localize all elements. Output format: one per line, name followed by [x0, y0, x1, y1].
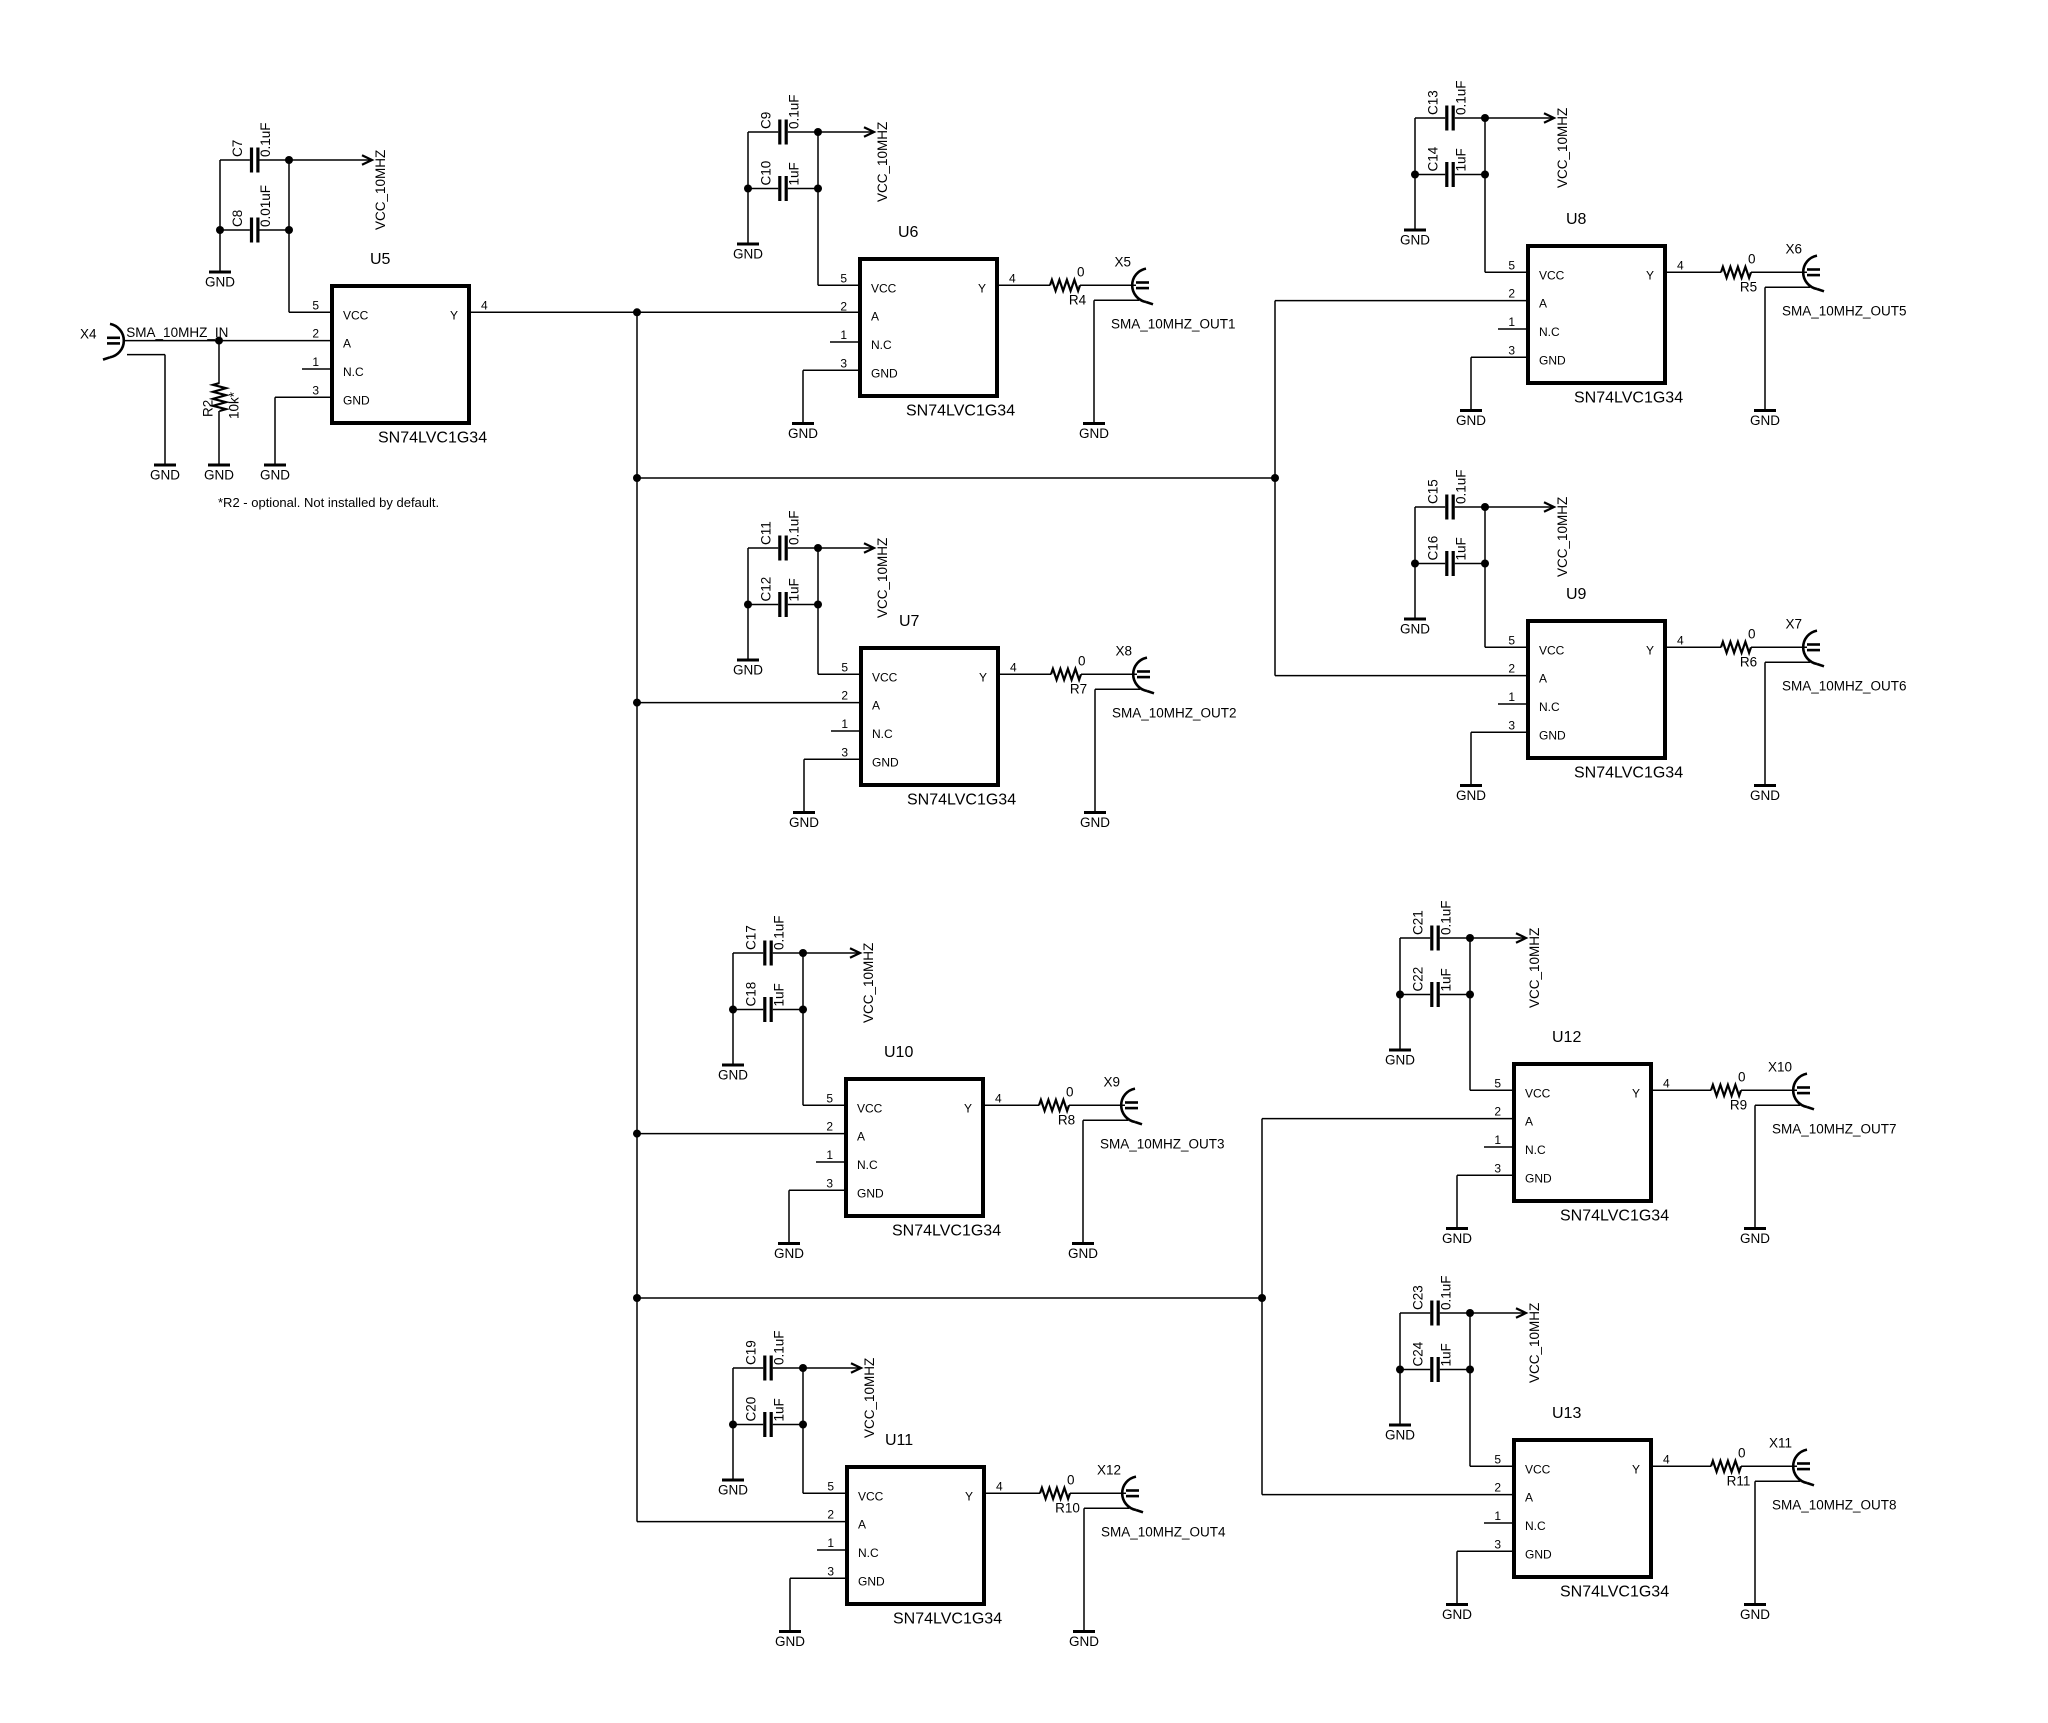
junction C8 right [285, 226, 293, 234]
svg-text:Y: Y [964, 1101, 972, 1115]
svg-text:SMA_10MHZ_OUT7: SMA_10MHZ_OUT7 [1772, 1121, 1897, 1136]
wire cap right vertical upper [817, 132, 819, 189]
wire cap left vertical [1414, 507, 1416, 564]
svg-text:C22: C22 [1411, 967, 1426, 992]
capacitor C24 1uF [1411, 1341, 1454, 1382]
svg-text:R7: R7 [1070, 681, 1087, 696]
wire caps to U5 VCC [288, 230, 290, 312]
wire C16 left lead [1415, 563, 1445, 565]
svg-text:C17: C17 [744, 925, 759, 950]
junction caps right bottom [799, 1421, 807, 1429]
capacitor C7 0.1uF [230, 122, 273, 172]
wire U13 GND pin 3 [1457, 1550, 1512, 1552]
ground below C14 [1400, 230, 1430, 248]
power arrow VCC_10MHZ [1485, 108, 1570, 188]
SMA connector X10 [1793, 1074, 1814, 1110]
power arrow VCC_10MHZ [1485, 497, 1570, 577]
wire U9 pin3 to ground [1470, 732, 1472, 785]
svg-text:GND: GND [343, 393, 370, 407]
svg-text:C9: C9 [759, 112, 774, 129]
SMA connector X7 [1803, 631, 1824, 667]
svg-text:SN74LVC1G34: SN74LVC1G34 [1574, 765, 1683, 782]
wire X7 shield to ground [1764, 662, 1766, 785]
svg-text:GND: GND [872, 755, 899, 769]
resistor R2 10k optional [213, 383, 226, 411]
wire X4 to U5 A pin 2 [123, 340, 330, 342]
svg-text:N.C: N.C [1539, 325, 1560, 339]
svg-text:1uF: 1uF [1439, 968, 1454, 991]
svg-text:1: 1 [840, 328, 847, 342]
svg-text:GND: GND [733, 663, 763, 678]
junction caps right bottom [1466, 991, 1474, 999]
svg-text:A: A [857, 1130, 865, 1144]
svg-text:0.1uF: 0.1uF [787, 94, 802, 129]
ground below C12 [733, 660, 763, 678]
wire C7 left lead [220, 159, 250, 161]
wire U11 GND pin 3 [790, 1577, 845, 1579]
IC U12 SN74LVC1G34 buffer [1514, 1064, 1651, 1201]
svg-text:R10: R10 [1055, 1500, 1080, 1515]
svg-text:U12: U12 [1552, 1029, 1581, 1046]
svg-text:VCC_10MHZ: VCC_10MHZ [875, 122, 890, 202]
ground X9 shield [1068, 1244, 1098, 1262]
svg-text:GND: GND [718, 1068, 748, 1083]
wire C15 left lead [1415, 506, 1445, 508]
wire cap right vertical upper [802, 1368, 804, 1425]
IC U5 SN74LVC1G34 buffer [332, 286, 469, 423]
svg-text:SMA_10MHZ_OUT2: SMA_10MHZ_OUT2 [1112, 705, 1237, 720]
wire cap right vertical upper [817, 548, 819, 605]
wire U13 Y to R11 [1681, 1465, 1711, 1467]
svg-text:N.C: N.C [871, 338, 892, 352]
svg-text:A: A [872, 699, 880, 713]
svg-text:U5: U5 [370, 251, 391, 268]
junction caps left [1411, 171, 1419, 179]
ground below C24 [1385, 1425, 1415, 1443]
svg-text:GND: GND [1400, 233, 1430, 248]
svg-text:SN74LVC1G34: SN74LVC1G34 [907, 792, 1016, 809]
power arrow VCC_10MHZ [818, 122, 890, 202]
junction caps left [729, 1421, 737, 1429]
wire R2 top lead [218, 341, 220, 383]
U12 pin 5 VCC stub [1484, 1089, 1512, 1091]
svg-text:3: 3 [1508, 343, 1515, 357]
svg-text:N.C: N.C [1539, 700, 1560, 714]
svg-text:0: 0 [1066, 1084, 1074, 1099]
svg-text:GND: GND [1442, 1231, 1472, 1246]
svg-text:4: 4 [1677, 258, 1684, 272]
SMA connector X12 [1122, 1477, 1143, 1513]
svg-text:2: 2 [1508, 662, 1515, 676]
svg-text:0: 0 [1077, 264, 1085, 279]
svg-text:1uF: 1uF [772, 983, 787, 1006]
wire cap left vertical [1414, 118, 1416, 175]
svg-text:U11: U11 [885, 1432, 913, 1449]
wire U9 GND pin 3 [1471, 731, 1526, 733]
wire C14 left lead [1415, 174, 1445, 176]
wire U5 Y output to U6 A [471, 311, 858, 313]
U5 pin 5 VCC stub [302, 311, 330, 313]
svg-text:U8: U8 [1566, 211, 1587, 228]
junction C7 right [285, 156, 293, 164]
svg-text:Y: Y [979, 670, 987, 684]
svg-text:1: 1 [1508, 690, 1515, 704]
svg-text:Y: Y [978, 281, 986, 295]
U6 pin 4 Y stub [999, 284, 1027, 286]
power arrow VCC_10MHZ U5 [289, 150, 388, 230]
wire to U5 VCC pin 5 [289, 311, 330, 313]
svg-text:4: 4 [996, 1479, 1003, 1493]
resistor R6 0 ohm [1721, 642, 1751, 653]
wire C21 left lead [1400, 937, 1430, 939]
wire C12 left lead [748, 604, 778, 606]
wire X4 shield to ground [164, 355, 166, 465]
junction caps right top [1481, 503, 1489, 511]
wire bus to U13 A pin [1262, 1494, 1512, 1496]
svg-text:0: 0 [1067, 1472, 1075, 1487]
U10 pin 4 Y stub [985, 1104, 1013, 1106]
svg-text:5: 5 [1508, 258, 1515, 272]
U5 pin 1 N.C stub [302, 368, 330, 370]
wire caps to ground [219, 230, 221, 272]
wire to U11 VCC pin 5 [803, 1492, 845, 1494]
junction caps right top [814, 544, 822, 552]
svg-text:SMA_10MHZ_OUT8: SMA_10MHZ_OUT8 [1772, 1497, 1897, 1512]
U8 pin 5 VCC stub [1498, 271, 1526, 273]
svg-text:5: 5 [826, 1091, 833, 1105]
wire caps to VCC pin [802, 1425, 804, 1494]
svg-text:1: 1 [827, 1536, 834, 1550]
junction right bus top [1271, 474, 1279, 482]
svg-text:X5: X5 [1114, 254, 1131, 269]
svg-text:Y: Y [1646, 643, 1654, 657]
U9 pin 4 Y stub [1667, 646, 1695, 648]
wire C14 right lead [1455, 174, 1485, 176]
capacitor C8 0.01uF [230, 185, 273, 243]
IC U6 SN74LVC1G34 buffer [860, 259, 997, 396]
ground X4 shield [150, 465, 180, 483]
capacitor C13 0.1uF [1426, 80, 1469, 130]
wire R7 to X8 [1081, 673, 1137, 675]
svg-text:1uF: 1uF [1454, 537, 1469, 560]
ground R2 [204, 465, 234, 483]
wire U5 pin3 to ground [274, 397, 276, 465]
wire caps to ground [1399, 995, 1401, 1051]
ground X12 shield [1069, 1632, 1099, 1650]
junction branch right top [633, 474, 641, 482]
wire bus to U11 A pin [637, 1521, 845, 1523]
wire to U13 VCC pin 5 [1470, 1465, 1512, 1467]
svg-text:SN74LVC1G34: SN74LVC1G34 [1560, 1208, 1669, 1225]
ground below C18 [718, 1065, 748, 1083]
svg-text:0: 0 [1738, 1445, 1746, 1460]
IC U11 SN74LVC1G34 buffer [847, 1467, 984, 1604]
svg-text:C19: C19 [744, 1340, 759, 1365]
wire branch to U12 U13 column [637, 1297, 1262, 1299]
capacitor C10 1uF [759, 161, 802, 201]
wire C24 left lead [1400, 1369, 1430, 1371]
svg-text:VCC_10MHZ: VCC_10MHZ [861, 943, 876, 1023]
junction right bus bottom [1258, 1294, 1266, 1302]
svg-text:R2: R2 [201, 400, 216, 417]
ground U6 pin 3 [788, 424, 818, 442]
svg-text:GND: GND [1080, 815, 1110, 830]
svg-text:GND: GND [260, 468, 290, 483]
IC U9 SN74LVC1G34 buffer [1528, 621, 1665, 758]
svg-text:3: 3 [1494, 1161, 1501, 1175]
wire to U10 VCC pin 5 [803, 1104, 844, 1106]
wire cap right vertical upper [1484, 507, 1486, 564]
ground X8 shield [1080, 813, 1110, 831]
wire R2 bottom lead [218, 411, 220, 465]
SMA connector X8 [1133, 658, 1154, 694]
svg-text:VCC: VCC [857, 1101, 883, 1115]
wire cap left vertical [732, 953, 734, 1010]
svg-text:GND: GND [205, 275, 235, 290]
svg-text:X6: X6 [1785, 241, 1802, 256]
wire cap left vertical [747, 548, 749, 605]
junction caps left [1396, 991, 1404, 999]
U9 pin 5 VCC stub [1498, 646, 1526, 648]
wire caps to VCC pin [817, 189, 819, 286]
svg-text:3: 3 [312, 383, 319, 397]
wire U8 GND pin 3 [1471, 356, 1526, 358]
capacitor C19 0.1uF [744, 1330, 787, 1380]
wire bus to U12 A pin [1262, 1118, 1512, 1120]
ground below C10 [733, 244, 763, 262]
svg-text:5: 5 [827, 1479, 834, 1493]
wire U8 pin3 to ground [1470, 357, 1472, 410]
svg-text:N.C: N.C [343, 365, 364, 379]
wire X12 shield [1084, 1507, 1129, 1509]
svg-text:*R2 - optional. Not installed: *R2 - optional. Not installed by default… [218, 495, 439, 510]
wire U6 GND pin 3 [803, 369, 858, 371]
svg-text:VCC_10MHZ: VCC_10MHZ [1555, 497, 1570, 577]
wire vertical bus U12 U13 [1261, 1119, 1263, 1495]
wire C11 left lead [748, 547, 778, 549]
power arrow VCC_10MHZ [1470, 928, 1542, 1008]
wire to U8 VCC pin 5 [1485, 271, 1526, 273]
svg-text:A: A [1525, 1491, 1533, 1505]
svg-text:U7: U7 [899, 613, 920, 630]
wire caps to VCC pin [1469, 995, 1471, 1091]
U10 pin 5 VCC stub [816, 1104, 844, 1106]
wire C23 right lead [1440, 1312, 1470, 1314]
wire caps to ground [747, 605, 749, 661]
wire C17 right lead [773, 952, 803, 954]
svg-text:0.1uF: 0.1uF [258, 122, 273, 157]
wire X8 shield [1095, 688, 1140, 690]
ground below C8 [205, 272, 235, 290]
wire C20 right lead [773, 1424, 803, 1426]
svg-text:4: 4 [1663, 1452, 1670, 1466]
svg-text:3: 3 [826, 1176, 833, 1190]
svg-text:1: 1 [841, 717, 848, 731]
ground U11 pin 3 [775, 1632, 805, 1650]
wire R4 to X5 [1080, 284, 1136, 286]
wire caps to ground [1399, 1370, 1401, 1426]
svg-text:C7: C7 [230, 140, 245, 157]
wire X5 shield [1094, 299, 1139, 301]
wire U12 GND pin 3 [1457, 1174, 1512, 1176]
svg-text:5: 5 [1494, 1076, 1501, 1090]
svg-text:2: 2 [1494, 1481, 1501, 1495]
U11 pin 1 N.C stub [817, 1549, 845, 1551]
capacitor C12 1uF [759, 577, 802, 617]
svg-text:4: 4 [1677, 633, 1684, 647]
wire C8 right lead [260, 229, 290, 231]
wire C22 left lead [1400, 994, 1430, 996]
wire caps to VCC pin [1484, 564, 1486, 648]
resistor R5 0 ohm [1721, 267, 1751, 278]
capacitor C23 0.1uF [1411, 1275, 1454, 1325]
junction caps right top [799, 1364, 807, 1372]
svg-text:VCC: VCC [858, 1489, 884, 1503]
junction caps right top [1466, 934, 1474, 942]
wire vertical bus left column [636, 312, 638, 1521]
svg-text:SMA_10MHZ_OUT6: SMA_10MHZ_OUT6 [1782, 678, 1907, 693]
svg-text:Y: Y [965, 1489, 973, 1503]
wire R6 to X7 [1751, 646, 1807, 648]
junction caps left [1396, 1366, 1404, 1374]
svg-text:C20: C20 [744, 1397, 759, 1422]
svg-text:X7: X7 [1785, 616, 1802, 631]
svg-text:GND: GND [1385, 1428, 1415, 1443]
svg-text:2: 2 [841, 689, 848, 703]
svg-text:0.1uF: 0.1uF [787, 510, 802, 545]
wire U9 Y to R6 [1695, 646, 1721, 648]
svg-text:GND: GND [1456, 788, 1486, 803]
svg-text:GND: GND [718, 1483, 748, 1498]
resistor R11 0 ohm [1711, 1461, 1741, 1472]
wire U10 pin3 to ground [788, 1190, 790, 1243]
svg-text:5: 5 [840, 271, 847, 285]
wire R9 to X10 [1741, 1089, 1797, 1091]
svg-text:GND: GND [1539, 728, 1566, 742]
wire caps right vertical [288, 160, 290, 230]
svg-text:5: 5 [1494, 1452, 1501, 1466]
wire branch to U7 A pin [637, 702, 859, 704]
capacitor C16 1uF [1426, 536, 1469, 576]
wire R5 to X6 [1751, 271, 1807, 273]
junction branch right bottom [633, 1294, 641, 1302]
wire U12 Y to R9 [1681, 1089, 1711, 1091]
wire C12 right lead [788, 604, 818, 606]
svg-text:A: A [1539, 297, 1547, 311]
svg-text:1: 1 [1508, 315, 1515, 329]
wire X12 shield to ground [1083, 1508, 1085, 1631]
wire X7 shield [1765, 661, 1810, 663]
U5 pin 4 Y stub [471, 311, 499, 313]
svg-text:1: 1 [1494, 1133, 1501, 1147]
svg-text:A: A [1539, 672, 1547, 686]
power arrow VCC_10MHZ [803, 943, 876, 1023]
svg-text:0: 0 [1738, 1069, 1746, 1084]
svg-text:0.1uF: 0.1uF [1439, 1275, 1454, 1310]
svg-text:4: 4 [1663, 1076, 1670, 1090]
svg-text:X10: X10 [1768, 1059, 1792, 1074]
svg-text:10k*: 10k* [227, 391, 242, 419]
wire U11 pin3 to ground [789, 1578, 791, 1631]
svg-text:GND: GND [857, 1186, 884, 1200]
IC U8 SN74LVC1G34 buffer [1528, 246, 1665, 383]
svg-text:5: 5 [312, 298, 319, 312]
U8 pin 4 Y stub [1667, 271, 1695, 273]
svg-text:SN74LVC1G34: SN74LVC1G34 [378, 430, 487, 447]
U12 pin 1 N.C stub [1484, 1146, 1512, 1148]
SMA connector X9 [1121, 1089, 1142, 1125]
svg-text:GND: GND [774, 1246, 804, 1261]
svg-text:3: 3 [827, 1564, 834, 1578]
svg-text:C16: C16 [1426, 536, 1441, 561]
svg-text:SMA_10MHZ_IN: SMA_10MHZ_IN [126, 325, 228, 340]
wire C21 right lead [1440, 937, 1470, 939]
svg-text:VCC: VCC [1539, 643, 1565, 657]
svg-text:0.1uF: 0.1uF [1439, 900, 1454, 935]
svg-text:GND: GND [1539, 353, 1566, 367]
svg-text:GND: GND [1456, 413, 1486, 428]
wire C22 right lead [1440, 994, 1470, 996]
svg-text:1: 1 [312, 355, 319, 369]
wire cap left vertical [1399, 1313, 1401, 1370]
U7 pin 1 N.C stub [831, 730, 859, 732]
U7 pin 4 Y stub [1000, 673, 1028, 675]
wire U10 GND pin 3 [789, 1189, 844, 1191]
wire C13 right lead [1455, 117, 1485, 119]
wire bus to U9 A pin [1275, 675, 1526, 677]
wire caps to VCC pin [1469, 1370, 1471, 1467]
capacitor C14 1uF [1426, 146, 1469, 187]
svg-text:SN74LVC1G34: SN74LVC1G34 [892, 1223, 1001, 1240]
U8 pin 1 N.C stub [1498, 328, 1526, 330]
svg-text:4: 4 [995, 1091, 1002, 1105]
svg-text:VCC: VCC [1525, 1086, 1551, 1100]
wire X6 shield to ground [1764, 287, 1766, 410]
junction bus top [633, 308, 641, 316]
junction caps right bottom [814, 601, 822, 609]
svg-text:2: 2 [312, 327, 319, 341]
ground X5 shield [1079, 424, 1109, 442]
resistor R4 0 ohm [1050, 280, 1080, 291]
svg-text:C13: C13 [1426, 90, 1441, 115]
U11 pin 5 VCC stub [817, 1492, 845, 1494]
wire U5 GND pin 3 [275, 396, 330, 398]
svg-text:C15: C15 [1426, 479, 1441, 504]
capacitor C22 1uF [1411, 967, 1454, 1007]
U7 pin 5 VCC stub [831, 673, 859, 675]
svg-text:SMA_10MHZ_OUT5: SMA_10MHZ_OUT5 [1782, 303, 1907, 318]
svg-text:0: 0 [1748, 626, 1756, 641]
wire cap left vertical [732, 1368, 734, 1425]
wire U6 pin3 to ground [802, 370, 804, 423]
U13 pin 5 VCC stub [1484, 1465, 1512, 1467]
wire to U6 VCC pin 5 [818, 284, 858, 286]
svg-text:VCC_10MHZ: VCC_10MHZ [373, 150, 388, 230]
svg-text:U6: U6 [898, 224, 919, 241]
svg-text:A: A [858, 1518, 866, 1532]
junction caps left [1411, 560, 1419, 568]
wire C19 right lead [773, 1367, 803, 1369]
capacitor C21 0.1uF [1411, 900, 1454, 950]
wire R8 to X9 [1069, 1104, 1125, 1106]
svg-text:C18: C18 [744, 982, 759, 1007]
svg-text:GND: GND [150, 468, 180, 483]
svg-text:VCC: VCC [343, 308, 369, 322]
ground U7 pin 3 [789, 813, 819, 831]
resistor R7 0 ohm [1051, 669, 1081, 680]
ground U13 pin 3 [1442, 1605, 1472, 1623]
wire cap right vertical upper [1484, 118, 1486, 175]
